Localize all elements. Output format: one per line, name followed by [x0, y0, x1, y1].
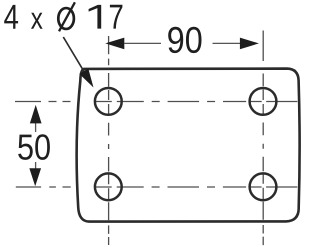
hole bottom-right: [250, 173, 277, 200]
centerline horizontal top row: [15, 101, 297, 103]
dim 90 left arrow: [105, 38, 124, 50]
dim 90 line left segment: [124, 42, 161, 44]
label x: [31, 13, 43, 29]
dim 90 line right segment: [213, 42, 241, 44]
centerline vertical left column: [108, 36, 110, 246]
centerline vertical right column: [262, 31, 264, 247]
leader arrowhead: [79, 69, 93, 88]
dim 50 down arrow: [29, 168, 41, 186]
label 1: [89, 5, 102, 29]
leader line to top-left hole: [63, 37, 88, 79]
hole bottom-left: [95, 173, 122, 200]
hole top-right: [250, 88, 277, 115]
dim 90 text: [168, 27, 201, 53]
diameter symbol: [58, 8, 74, 29]
hole top-left: [95, 88, 122, 115]
plate outline: [77, 69, 300, 222]
dim 90 right arrow: [240, 38, 259, 50]
dim 50 line lower segment: [35, 162, 37, 169]
label 4: [4, 5, 18, 29]
dim 50 text: [18, 134, 50, 160]
label 7: [110, 5, 123, 29]
centerline horizontal bottom row: [16, 186, 298, 188]
dim 50 up arrow: [30, 105, 42, 124]
dim 50 line upper segment: [35, 123, 37, 133]
